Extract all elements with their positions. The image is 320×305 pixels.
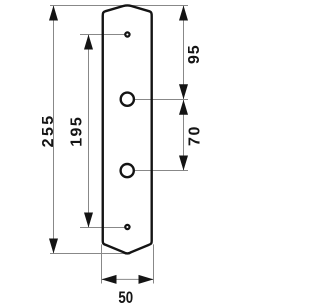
lower circle hole: [121, 164, 134, 177]
wire top extension line: [50, 5, 188, 7]
wire bottom hole extension line: [80, 227, 125, 229]
svg-text:95: 95: [186, 45, 203, 64]
arrow 50 left: [102, 275, 117, 284]
arrow 255 bottom (down): [49, 239, 58, 254]
arrowheads: [49, 6, 188, 284]
arrow 70 bottom (down): [179, 156, 188, 171]
wire dimension line 195: [88, 35, 90, 228]
svg-text:255: 255: [40, 113, 57, 147]
wire lower circle extension line: [135, 170, 188, 172]
top screw hole: [125, 32, 129, 36]
svg-text:50: 50: [118, 288, 133, 305]
arrow 255 top (up): [49, 6, 58, 21]
upper circle hole: [121, 93, 134, 106]
wire bottom extension line: [50, 253, 128, 255]
wire dimension line 95-70: [183, 6, 185, 171]
wire upper circle extension line: [135, 99, 188, 101]
arrow 195 bottom (down): [84, 213, 93, 228]
arrow 95 top (up): [179, 6, 188, 21]
plate outline: [103, 5, 152, 253]
wire dimension line 255: [53, 6, 55, 254]
wire left extension line 50: [101, 244, 103, 283]
thin extension/dimension lines: [50, 6, 188, 284]
arrow 195 top (up): [84, 35, 93, 50]
arrow 95 bottom (down): [179, 84, 188, 99]
arrow 50 right: [139, 275, 154, 284]
bottom screw hole: [125, 225, 129, 229]
svg-text:195: 195: [68, 116, 85, 147]
arrow 70 top (up): [179, 100, 188, 115]
wire dimension line 50: [102, 278, 154, 280]
wire top hole extension line: [80, 34, 125, 36]
wire right extension line 50: [153, 244, 155, 283]
svg-text:70: 70: [187, 125, 204, 146]
